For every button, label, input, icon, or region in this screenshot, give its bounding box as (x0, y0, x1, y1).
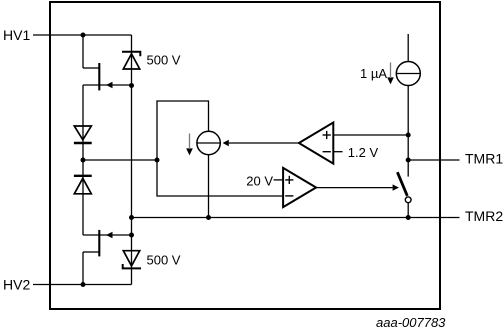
svg-text:HV1: HV1 (3, 27, 30, 43)
svg-text:TMR1: TMR1 (465, 151, 503, 167)
svg-text:500 V: 500 V (147, 53, 181, 68)
svg-text:500 V: 500 V (147, 253, 181, 268)
svg-text:1 µA: 1 µA (360, 66, 387, 81)
svg-text:aaa-007783: aaa-007783 (376, 315, 446, 330)
svg-text:1.2 V: 1.2 V (348, 145, 379, 160)
svg-text:TMR2: TMR2 (465, 208, 503, 224)
svg-text:HV2: HV2 (3, 277, 30, 293)
svg-text:20 V: 20 V (246, 173, 273, 188)
